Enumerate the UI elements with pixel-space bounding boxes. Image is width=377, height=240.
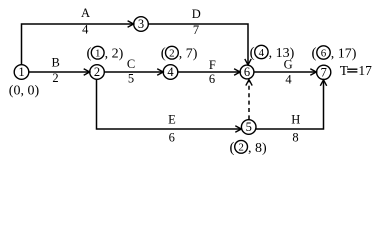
wire E (node2 down then right to node5)	[97, 79, 242, 132]
wire H (node5 right then up into node7)	[256, 80, 327, 129]
svg-text:6: 6	[244, 65, 250, 79]
svg-text:2: 2	[169, 48, 175, 60]
svg-text:, 8): , 8)	[248, 141, 267, 156]
svg-text:6: 6	[169, 131, 175, 145]
wire C (node2 to node4)	[104, 69, 163, 75]
svg-text:D: D	[192, 7, 201, 21]
svg-text:H: H	[291, 112, 300, 126]
svg-text:2: 2	[52, 71, 58, 85]
svg-text:3: 3	[138, 17, 144, 31]
svg-text:T: T	[340, 63, 349, 78]
label (circled6, 17) at node7	[312, 46, 357, 62]
svg-text:, 7): , 7)	[179, 47, 198, 62]
node 1	[14, 65, 29, 80]
label (circled1, 2) at node2	[87, 46, 124, 62]
svg-text:5: 5	[246, 120, 252, 134]
svg-text:A: A	[81, 6, 90, 20]
wire F (node4 to node6)	[178, 69, 240, 75]
dummy activity dashed arrow (node5 up to node6)	[246, 80, 252, 120]
svg-text:(0, 0): (0, 0)	[9, 83, 40, 98]
svg-text:6: 6	[321, 47, 327, 59]
node 2	[90, 65, 105, 80]
svg-text:2: 2	[238, 142, 244, 154]
node 5	[241, 120, 256, 135]
svg-text:(: (	[250, 45, 255, 61]
svg-text:F: F	[209, 58, 216, 72]
svg-text:2: 2	[94, 65, 100, 79]
label (circled4, 13) at node6	[250, 45, 295, 61]
svg-text:8: 8	[292, 131, 298, 145]
svg-text:4: 4	[82, 23, 89, 37]
svg-text:4: 4	[259, 47, 265, 59]
node 3	[134, 17, 149, 32]
svg-text:B: B	[52, 56, 60, 70]
svg-text:17: 17	[358, 63, 372, 78]
svg-text:7: 7	[193, 23, 199, 37]
svg-text:, 2): , 2)	[105, 47, 124, 62]
svg-text:4: 4	[285, 73, 292, 87]
node 6	[240, 65, 254, 79]
svg-text:4: 4	[167, 65, 174, 79]
wire A (node1 up and right to node3)	[22, 21, 134, 65]
svg-text:1: 1	[18, 65, 24, 79]
label T=17 total duration	[340, 63, 372, 78]
wire D (node3 right then down into node6)	[148, 24, 251, 65]
node 4	[163, 65, 178, 80]
svg-text:1: 1	[95, 48, 101, 60]
wire B (node1 to node2)	[29, 69, 90, 75]
wire G (node6 to node7)	[254, 69, 316, 75]
svg-text:E: E	[168, 112, 176, 126]
svg-text:(: (	[230, 140, 235, 156]
svg-text:, 13): , 13)	[269, 46, 295, 61]
svg-text:C: C	[127, 57, 135, 71]
label (circled2, 7) at node4	[161, 46, 198, 62]
label (circled2, 8) at node5	[230, 140, 268, 156]
svg-text:(: (	[312, 46, 317, 62]
svg-text:, 17): , 17)	[331, 47, 357, 62]
svg-text:7: 7	[321, 66, 327, 80]
node 7	[317, 65, 331, 79]
svg-text:6: 6	[209, 72, 215, 86]
svg-text:5: 5	[128, 72, 134, 86]
